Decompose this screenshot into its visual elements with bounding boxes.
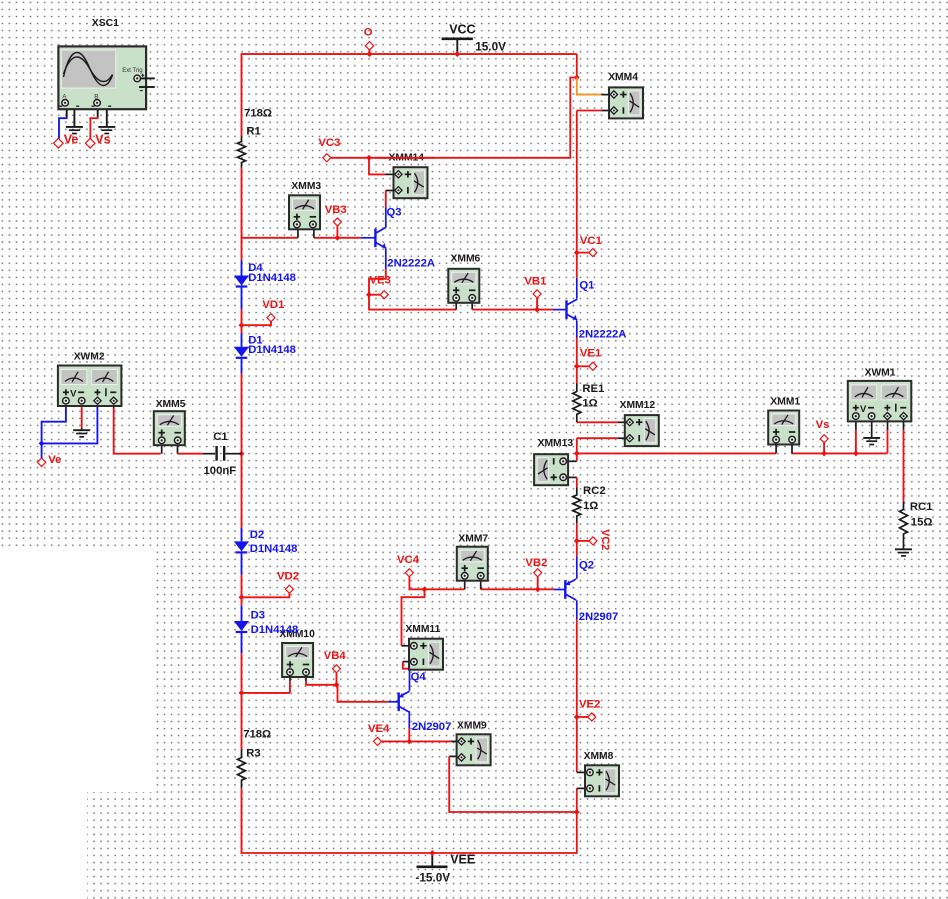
svg-text:XMM4: XMM4 [608,72,638,83]
svg-text:XMM11: XMM11 [405,624,440,635]
svg-text:D1N4148: D1N4148 [248,344,296,356]
svg-text:-15.0V: -15.0V [415,871,450,885]
svg-text:XMM5: XMM5 [156,399,186,410]
svg-text:RE1: RE1 [582,383,604,395]
svg-text:D1N4148: D1N4148 [250,543,298,555]
svg-text:D1N4148: D1N4148 [251,624,299,636]
svg-text:VE1: VE1 [580,348,601,360]
svg-text:XMM8: XMM8 [584,751,614,762]
svg-text:VC2: VC2 [599,529,611,550]
svg-text:VD1: VD1 [262,299,284,311]
svg-text:VB4: VB4 [324,650,347,662]
svg-text:XMM12: XMM12 [620,400,656,411]
svg-text:Q1: Q1 [579,280,594,292]
svg-text:2N2222A: 2N2222A [579,329,627,341]
svg-text:Q4: Q4 [411,671,427,683]
svg-text:VB1: VB1 [524,275,546,287]
svg-text:XMM1: XMM1 [770,396,800,407]
svg-text:100nF: 100nF [204,465,237,477]
svg-text:RC2: RC2 [583,485,606,497]
svg-text:VE3: VE3 [370,275,391,287]
svg-text:2N2907: 2N2907 [579,611,619,623]
svg-text:C1: C1 [213,431,227,443]
svg-text:VD2: VD2 [277,570,299,582]
svg-text:VE2: VE2 [579,699,600,711]
svg-text:XWM1: XWM1 [865,368,896,379]
svg-text:15Ω: 15Ω [911,516,933,528]
svg-text:XSC1: XSC1 [92,18,119,29]
svg-text:1Ω: 1Ω [582,398,597,410]
svg-text:Vs: Vs [95,133,110,147]
svg-text:15.0V: 15.0V [475,39,506,53]
svg-text:Ve: Ve [48,454,61,466]
svg-text:VCC: VCC [449,23,475,37]
svg-text:O: O [364,27,373,39]
svg-text:D2: D2 [250,529,264,541]
svg-text:VC3: VC3 [318,137,340,149]
svg-text:XMM3: XMM3 [291,181,321,192]
svg-text:XMM6: XMM6 [451,254,481,265]
svg-text:XMM9: XMM9 [457,721,487,732]
svg-text:VB3: VB3 [325,204,347,216]
svg-text:Q3: Q3 [387,207,402,219]
svg-text:VEE: VEE [450,853,475,867]
svg-text:Vs: Vs [816,419,830,431]
svg-text:1Ω: 1Ω [583,500,598,512]
svg-text:VB2: VB2 [525,557,547,569]
svg-text:VC1: VC1 [580,235,602,247]
svg-text:D3: D3 [251,609,265,621]
svg-text:Ext Trig: Ext Trig [122,68,142,74]
svg-text:V: V [70,389,77,400]
svg-text:2N2907: 2N2907 [412,721,452,733]
svg-text:R1: R1 [246,126,260,138]
svg-text:VC4: VC4 [397,554,420,566]
svg-text:718Ω: 718Ω [243,729,271,741]
svg-text:Q2: Q2 [579,560,594,572]
svg-text:VE4: VE4 [368,723,390,735]
svg-text:R3: R3 [246,747,260,759]
svg-text:XMM7: XMM7 [458,534,488,545]
svg-text:XWM2: XWM2 [74,352,105,363]
svg-text:2N2222A: 2N2222A [387,258,435,270]
svg-text:718Ω: 718Ω [244,108,272,120]
svg-text:XMM13: XMM13 [538,438,574,449]
svg-text:D1N4148: D1N4148 [248,272,296,284]
svg-text:Ve: Ve [64,132,79,146]
svg-text:V: V [860,404,867,415]
svg-text:RC1: RC1 [910,501,933,513]
